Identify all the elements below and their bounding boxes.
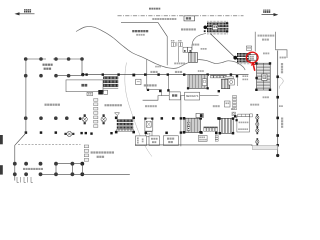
waiting room box bottom center <box>149 136 159 146</box>
label lower connection gate <box>23 168 43 170</box>
pillar row bottom lower (y174.3) <box>13 172 74 176</box>
left edge escalator slab upper <box>0 135 3 144</box>
platform edge line right <box>277 51 279 157</box>
fare adjustment machine row <box>211 75 227 78</box>
arrow to Toride (right) <box>262 13 279 16</box>
ticket gate right-1 <box>256 114 259 121</box>
machine strip right of gates <box>225 77 234 79</box>
platform comb ticks <box>17 177 33 183</box>
elevator block <box>144 118 153 132</box>
ticket gate group south <box>64 131 74 136</box>
escalator landing box <box>213 25 218 30</box>
ticket gate right-3 <box>256 127 259 134</box>
small box right of stair C <box>202 79 206 86</box>
diagonal wall to stairs <box>211 34 236 58</box>
pedestrian deck right wall <box>275 32 277 48</box>
label (1F) platform <box>279 105 283 107</box>
stair F corners <box>218 117 234 134</box>
stair C bottom corners <box>187 87 209 89</box>
left edge escalator slab lower <box>0 165 3 174</box>
pillar row top (y59) <box>24 57 84 61</box>
walls top-left grid <box>15 59 83 181</box>
ticket vending machines column <box>94 99 98 128</box>
curved ramp wall (upper) <box>76 27 245 70</box>
escalator teeth bottom <box>208 33 228 35</box>
small service box <box>87 92 93 95</box>
bottom wall with step <box>135 145 252 146</box>
paid area wall columns <box>180 117 182 134</box>
vertical label home lower <box>281 118 283 128</box>
label (2F) under curve <box>155 66 161 68</box>
ticket gate group north-1 <box>82 114 87 124</box>
small sign box above escalator <box>246 46 251 50</box>
deck corner wall <box>276 48 287 58</box>
column below <box>236 119 238 121</box>
wall stub left of stair C <box>167 75 169 90</box>
dark utility box <box>98 90 103 95</box>
kiosk (baiten) <box>66 80 103 92</box>
label above wall A <box>150 71 157 73</box>
stair A bottom edge <box>103 87 118 89</box>
small machine column right of label box <box>215 135 218 141</box>
label corridor small <box>192 44 199 46</box>
label staff room <box>144 84 157 86</box>
platform edge end dot <box>276 154 279 157</box>
track centerline (dash-dot) <box>118 15 244 17</box>
label Lumine Plaza <box>132 30 148 32</box>
label chiyoda line connection line1 <box>43 64 53 66</box>
kaisatsu label box <box>184 16 195 21</box>
stair E landing box <box>262 74 267 81</box>
label (3F) left <box>145 105 157 107</box>
stair D inner boxes <box>187 122 190 130</box>
column left <box>159 90 161 92</box>
columns on platform edge <box>276 76 279 147</box>
wall columns row <box>85 73 232 75</box>
stair C block <box>188 75 208 89</box>
small box right of sales strip <box>250 114 253 117</box>
ticket gate right-4 <box>256 138 259 145</box>
concourse escalator: lower flight <box>237 58 251 62</box>
short wall below column <box>236 78 238 87</box>
elevator box above stair D <box>196 113 203 117</box>
curved road (steep, light) <box>125 63 152 157</box>
concourse escalator: upper flight <box>237 53 251 57</box>
fare machine pair B <box>178 40 183 46</box>
TX passage pillars <box>80 162 84 176</box>
ticket window box <box>136 79 141 84</box>
label above stair F <box>231 108 235 110</box>
stair B flight 3 <box>117 126 133 128</box>
escalator to platform: upper flight <box>207 23 229 27</box>
pillar row second (y75.6) <box>24 74 70 78</box>
column left of machine row <box>200 131 202 133</box>
label pedestrian deck line2 <box>262 39 269 41</box>
ramp squiggle on platform edge <box>279 77 284 89</box>
office box bottom far left <box>135 136 146 146</box>
stair B lower landing <box>117 129 133 131</box>
staff room walls <box>147 60 162 96</box>
separator wall between machine pairs <box>176 42 178 47</box>
stair E tall right <box>257 63 271 90</box>
label Toride direction <box>263 10 270 13</box>
label (3F) lower right <box>250 104 259 106</box>
main concourse wall <box>83 74 249 76</box>
small office box left of stair F <box>225 101 231 107</box>
label passage to platform <box>181 28 196 30</box>
label small row2 <box>242 79 248 81</box>
column squares row south gate (y132.6) <box>25 131 57 134</box>
stair A flight 3 <box>103 84 118 87</box>
label chiyoda line connection line2 <box>44 68 52 70</box>
stair A flight 1 <box>103 76 118 79</box>
TX passage walls <box>41 164 130 175</box>
stair F right-bottom <box>220 118 233 133</box>
arrow to Ueno (left) <box>15 12 35 15</box>
label platform walkway <box>152 18 176 20</box>
escalator icon box B <box>188 47 192 52</box>
dark column right of label box <box>215 132 218 135</box>
label (2F) near circle <box>263 53 269 55</box>
label above wall B <box>175 71 182 73</box>
stair B marker funnel <box>115 113 120 118</box>
ticket machine row bottom <box>204 127 218 131</box>
label Ueno direction <box>24 9 31 12</box>
svg-text:NEWDAYS: NEWDAYS <box>186 95 199 98</box>
label box under machines <box>198 135 207 141</box>
white utility box <box>104 90 108 94</box>
label north gate <box>105 104 122 106</box>
label south gate <box>45 104 60 106</box>
red pointer arrow <box>251 62 256 71</box>
red highlight circle <box>246 52 258 63</box>
stair E corners <box>255 62 271 91</box>
sales machine box A <box>238 114 250 117</box>
stair D block <box>184 118 201 132</box>
pillar dot left of gate <box>79 117 82 120</box>
machines strip right <box>233 95 237 109</box>
ticket gate right-2 <box>256 121 259 128</box>
label (3F) right <box>213 105 220 107</box>
corridor stair hatch <box>189 53 198 63</box>
escalator block right of gates <box>221 79 229 88</box>
label track name (Joban up line) <box>149 8 160 10</box>
temporary gate box <box>163 136 178 146</box>
column below staff room <box>147 89 149 91</box>
column right of NEWDAYS <box>218 90 220 92</box>
corridor wall arc <box>192 34 206 51</box>
escalator icon box A <box>183 47 187 52</box>
escalator to platform: lower flight <box>207 28 229 32</box>
gray walkway band <box>252 146 277 150</box>
squares row y118.4 <box>161 117 220 120</box>
vertical label home upper <box>281 63 283 73</box>
pillar row concourse (y118.2) <box>24 116 69 120</box>
dashed boundary line <box>18 143 81 145</box>
label Tsukuba Express <box>91 151 114 153</box>
dial box above stair F <box>232 112 235 116</box>
label (2F) corridor <box>201 48 207 50</box>
box below elevator <box>146 132 152 137</box>
column left of sales box <box>234 115 236 117</box>
stair B flight 2 <box>117 123 133 126</box>
stair B flight 1 <box>117 119 133 122</box>
escalator end squares <box>204 22 228 32</box>
label (2F) above wall <box>198 70 204 72</box>
corridor left wall <box>177 47 179 63</box>
column squares pair near gates <box>80 132 112 135</box>
pedestrian deck left wall <box>254 32 256 52</box>
shop box NEWDAYS <box>185 92 200 100</box>
label (2F) Lumine <box>136 34 145 36</box>
label renrakuguchi <box>97 156 105 158</box>
machine box with dial <box>228 79 234 85</box>
escalator to platform: end circle <box>204 26 208 30</box>
TX ticket machines column <box>84 145 89 161</box>
shop box tenpo <box>169 92 180 100</box>
wall column square mid <box>132 74 135 77</box>
pillar dot on wall <box>81 73 84 76</box>
Lumine Plaza building outline <box>121 23 167 66</box>
stair D corner columns <box>183 117 202 134</box>
concourse escalator teeth <box>237 63 250 65</box>
column at stub end <box>167 89 169 91</box>
stair B corner columns <box>115 117 135 134</box>
tall info box right of stair F <box>237 117 250 132</box>
pillar row bottom upper (y163.7) <box>13 162 74 166</box>
label below corridor <box>174 63 185 65</box>
ticket gate group north-2 <box>101 114 106 124</box>
fare machine pair A <box>171 40 176 46</box>
concourse escalator: end circle <box>233 56 237 60</box>
label (2F) deck right <box>280 57 286 59</box>
label pedestrian deck line1 <box>258 35 275 37</box>
label (2F) mid right <box>263 96 269 98</box>
bottom squares row (y132.5) <box>145 132 168 135</box>
ad board box (highlighted) <box>249 55 257 61</box>
paid area boundary wall <box>180 96 182 147</box>
shop frontage wall <box>143 96 219 101</box>
label (2F) right of machines row1 <box>242 75 248 77</box>
stair A flight 2 <box>103 80 118 83</box>
column near machines <box>236 75 238 77</box>
escalator teeth top <box>208 21 228 23</box>
